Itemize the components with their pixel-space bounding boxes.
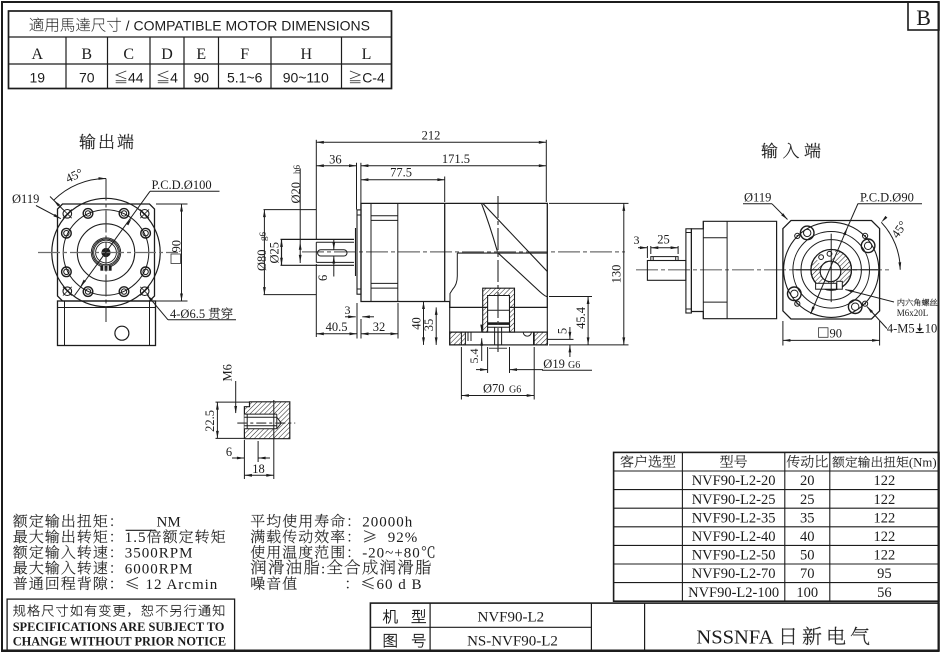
svg-text:90: 90 [830, 326, 843, 340]
title input side 输入端 [762, 143, 778, 159]
svg-text:50: 50 [800, 548, 815, 564]
input side mounting plate [686, 229, 692, 313]
title block [370, 603, 939, 651]
extension lines bottom [315, 264, 317, 337]
svg-text:6000RPM: 6000RPM [125, 561, 194, 577]
bottom flange hub (hatched) [488, 296, 510, 333]
svg-text:70: 70 [800, 566, 815, 582]
svg-text:NM: NM [157, 515, 181, 531]
svg-text:95: 95 [877, 566, 892, 582]
label model 机型 [383, 609, 397, 623]
svg-text:L: L [362, 46, 372, 63]
label drawing no 图号 [384, 634, 397, 647]
gearbox base body below flange [58, 301, 156, 346]
label socket screws M6x20L [845, 290, 894, 303]
flange circles [784, 222, 879, 317]
svg-text:3500RPM: 3500RPM [125, 546, 194, 562]
svg-text:32: 32 [373, 320, 386, 334]
keyway slot [318, 250, 347, 256]
4 socket head cap screws M6 [861, 239, 875, 253]
svg-text:6: 6 [226, 445, 232, 459]
svg-text:22.5: 22.5 [203, 410, 217, 432]
input shaft [647, 261, 686, 281]
svg-text:4-Ø6.5: 4-Ø6.5 [170, 307, 208, 321]
svg-text:40: 40 [800, 529, 815, 545]
dim Ø80 g6 [264, 209, 317, 211]
clamp slot [816, 283, 837, 289]
svg-text:90~110: 90~110 [283, 70, 329, 86]
svg-text:130: 130 [610, 265, 624, 284]
motor mounting plate [355, 228, 357, 276]
clamp screw [837, 281, 843, 289]
svg-text:C-4: C-4 [362, 70, 385, 86]
right view horizontal centerline [636, 269, 890, 271]
dim 212 [316, 141, 546, 143]
view centerline cross [830, 234, 832, 302]
svg-text:M6x20L: M6x20L [897, 308, 929, 318]
svg-text:90: 90 [170, 240, 184, 253]
svg-text:90: 90 [194, 70, 210, 86]
dim 45.4 [549, 296, 592, 298]
svg-text:P.C.D.Ø90: P.C.D.Ø90 [860, 191, 914, 205]
svg-text:NVF90-L2-35: NVF90-L2-35 [692, 510, 776, 526]
dim 3 plate thickness [345, 316, 356, 318]
dim 25 key length [651, 247, 678, 249]
gearbox body outline [361, 203, 547, 307]
svg-text:20: 20 [800, 473, 815, 489]
left vertical of lower housing [449, 307, 451, 332]
dim 35 [435, 307, 437, 345]
dim 6 key width [243, 440, 245, 479]
svg-text:100: 100 [796, 585, 818, 601]
svg-text:12 Arcmin: 12 Arcmin [141, 577, 219, 593]
svg-text:122: 122 [874, 548, 896, 564]
svg-text:Ø119: Ø119 [744, 191, 771, 205]
svg-text:B: B [916, 5, 931, 30]
spec text column 2 [251, 514, 265, 527]
keyway mark [100, 266, 111, 271]
svg-text:NS-NVF90-L2: NS-NVF90-L2 [467, 633, 558, 649]
svg-text:Ø20: Ø20 [289, 179, 303, 204]
4 M5 tapped holes [863, 233, 868, 238]
svg-text:M6: M6 [221, 364, 235, 381]
svg-text:122: 122 [874, 529, 896, 545]
svg-text:G6: G6 [568, 360, 580, 371]
svg-text:4-M5: 4-M5 [887, 322, 915, 336]
svg-text:92%: 92% [378, 530, 418, 546]
svg-text:Ø25: Ø25 [267, 242, 281, 264]
svg-text:F: F [240, 46, 249, 63]
dim square 90 input [782, 321, 784, 346]
dimension 45 deg arc [54, 179, 106, 201]
input bore [820, 261, 841, 282]
svg-text:Ø119: Ø119 [12, 192, 39, 206]
clamp screw holes [819, 255, 824, 260]
dim Ø20 h6 [299, 168, 301, 263]
dim Ø25 text [267, 242, 281, 264]
4 corner holes 4-Ø6.5 [63, 210, 72, 219]
svg-text:NVF90-L2-20: NVF90-L2-20 [692, 473, 776, 489]
svg-text:NVF90-L2: NVF90-L2 [478, 609, 545, 625]
shaft Ø20 h6 section [316, 241, 354, 243]
svg-text:212: 212 [422, 128, 441, 142]
svg-text:NSSNFA: NSSNFA [696, 627, 773, 649]
svg-text:122: 122 [874, 492, 896, 508]
svg-text:H: H [301, 46, 313, 63]
svg-text:A: A [32, 46, 44, 63]
dim 40 [423, 302, 425, 345]
svg-text:35: 35 [800, 510, 815, 526]
svg-text:NVF90-L2-40: NVF90-L2-40 [692, 529, 776, 545]
svg-text::: : [321, 561, 326, 577]
bevel gear diagonal upper [483, 203, 548, 271]
svg-text:45.4: 45.4 [574, 306, 588, 329]
dim 130 [549, 202, 629, 204]
extension lines top [315, 140, 317, 240]
svg-text:40.5: 40.5 [326, 320, 348, 334]
svg-text:-20~+80: -20~+80 [362, 546, 421, 562]
svg-text:3: 3 [634, 233, 640, 247]
svg-text:G6: G6 [509, 385, 521, 396]
svg-text:5: 5 [555, 328, 569, 334]
input side body profile [691, 221, 776, 318]
svg-text:SPECIFICATIONS ARE SUBJECT TO: SPECIFICATIONS ARE SUBJECT TO [13, 620, 225, 634]
dim 5 [548, 338, 574, 340]
vertical axis of bottom output flange [497, 196, 499, 352]
bottom mounting plate [450, 332, 548, 345]
detail centerline [237, 422, 295, 424]
output shaft Ø25 [281, 238, 355, 240]
bevel gear diagonal lower [498, 253, 547, 297]
svg-text:(Nm): (Nm) [909, 456, 937, 470]
shaft hub circles [91, 238, 120, 267]
flange axis centerline through hub [497, 296, 499, 352]
svg-text:B: B [81, 46, 92, 63]
output flange square [58, 204, 155, 301]
svg-text:171.5: 171.5 [442, 152, 470, 166]
svg-text:44: 44 [128, 70, 144, 86]
svg-text:4: 4 [170, 70, 178, 86]
8 mounting bolts on ring [83, 209, 93, 219]
svg-text:122: 122 [874, 473, 896, 489]
detail bore [244, 414, 278, 429]
dim 32 [361, 333, 398, 335]
customer selection table [614, 452, 939, 601]
dim 22.5 [216, 401, 250, 403]
shaft bore [101, 248, 110, 257]
bevel gear arc [482, 203, 498, 251]
svg-text:P.C.D.Ø100: P.C.D.Ø100 [152, 178, 212, 192]
input flange square with chamfered corners [783, 221, 880, 320]
dim Ø25 arrows [280, 239, 283, 247]
dim Ø19 G6 [487, 347, 489, 373]
bolt ring circle [63, 210, 149, 296]
dim 36 [316, 165, 356, 167]
dimension square 90 [156, 203, 188, 205]
svg-text:Ø19: Ø19 [543, 357, 568, 371]
dim P.C.D. Ø90 diagonal [847, 204, 858, 228]
body section lines [370, 203, 372, 301]
dim 18 [273, 400, 275, 479]
svg-text:19: 19 [30, 70, 46, 86]
label M6 [221, 364, 235, 381]
output view centerlines [38, 252, 178, 254]
svg-text:18: 18 [252, 462, 265, 476]
svg-text:20000h: 20000h [362, 515, 413, 531]
svg-text:25: 25 [800, 492, 815, 508]
detail block hatched [244, 402, 289, 439]
svg-text:3: 3 [345, 303, 351, 317]
internal cavity line [457, 252, 547, 254]
svg-text:1.5: 1.5 [125, 530, 147, 546]
svg-text:25: 25 [657, 233, 670, 247]
revision box B [908, 2, 939, 30]
dim 6 keyway width [333, 240, 335, 250]
compatible motor dimensions table [9, 11, 392, 89]
input hollow shaft hatched disc [811, 249, 852, 290]
svg-text:35: 35 [422, 319, 436, 332]
svg-text:NVF90-L2-50: NVF90-L2-50 [692, 548, 776, 564]
ring grooves [371, 215, 398, 217]
svg-text:Ø70: Ø70 [483, 382, 508, 396]
svg-text:6: 6 [316, 275, 330, 281]
selection table header [621, 455, 634, 468]
spec text column 1 [13, 514, 27, 528]
output flange circle Ø119 [52, 198, 160, 306]
plate spigot lines [460, 332, 462, 345]
dim 3 key offset [646, 246, 648, 258]
svg-text:C: C [123, 46, 134, 63]
svg-text:70: 70 [79, 70, 95, 86]
dim 40.5 [316, 333, 357, 335]
input shaft key [651, 257, 678, 261]
svg-text:NVF90-L2-25: NVF90-L2-25 [692, 492, 776, 508]
center view horizontal centerline [302, 251, 625, 253]
dim 45 deg arc input [881, 222, 900, 269]
svg-text:77.5: 77.5 [390, 166, 412, 180]
svg-text:g6: g6 [258, 232, 268, 242]
svg-text:/ COMPATIBLE MOTOR DIMENSIONS: / COMPATIBLE MOTOR DIMENSIONS [122, 18, 370, 34]
base plug circle [115, 326, 129, 340]
svg-text:36: 36 [329, 152, 342, 166]
notice box [7, 599, 235, 650]
svg-text:5.1~6: 5.1~6 [227, 70, 263, 86]
dimension text 45° [63, 166, 85, 186]
svg-text:5.4: 5.4 [467, 349, 481, 364]
svg-text:E: E [196, 46, 206, 63]
motor table header text [30, 18, 44, 31]
svg-text:h6: h6 [292, 165, 302, 175]
svg-text:D: D [161, 46, 173, 63]
dim 171.5 [361, 165, 546, 167]
svg-text:56: 56 [877, 585, 892, 601]
dim 5.4 [481, 326, 483, 332]
svg-text:60 d B: 60 d B [377, 577, 423, 593]
svg-text:NVF90-L2-100: NVF90-L2-100 [688, 585, 779, 601]
dim 77.5 [361, 179, 445, 181]
title output side 输出端 [80, 134, 96, 150]
hub bore internals [488, 309, 510, 311]
svg-text:122: 122 [874, 510, 896, 526]
svg-text:Ø80: Ø80 [255, 246, 269, 271]
dim Ø70 G6 [460, 347, 462, 400]
clamp relief white wedge [814, 244, 838, 265]
svg-text:NVF90-L2-70: NVF90-L2-70 [692, 566, 776, 582]
svg-text:10: 10 [925, 322, 938, 336]
output boss circle [77, 224, 134, 281]
svg-text:CHANGE WITHOUT PRIOR NOTICE: CHANGE WITHOUT PRIOR NOTICE [13, 634, 226, 648]
